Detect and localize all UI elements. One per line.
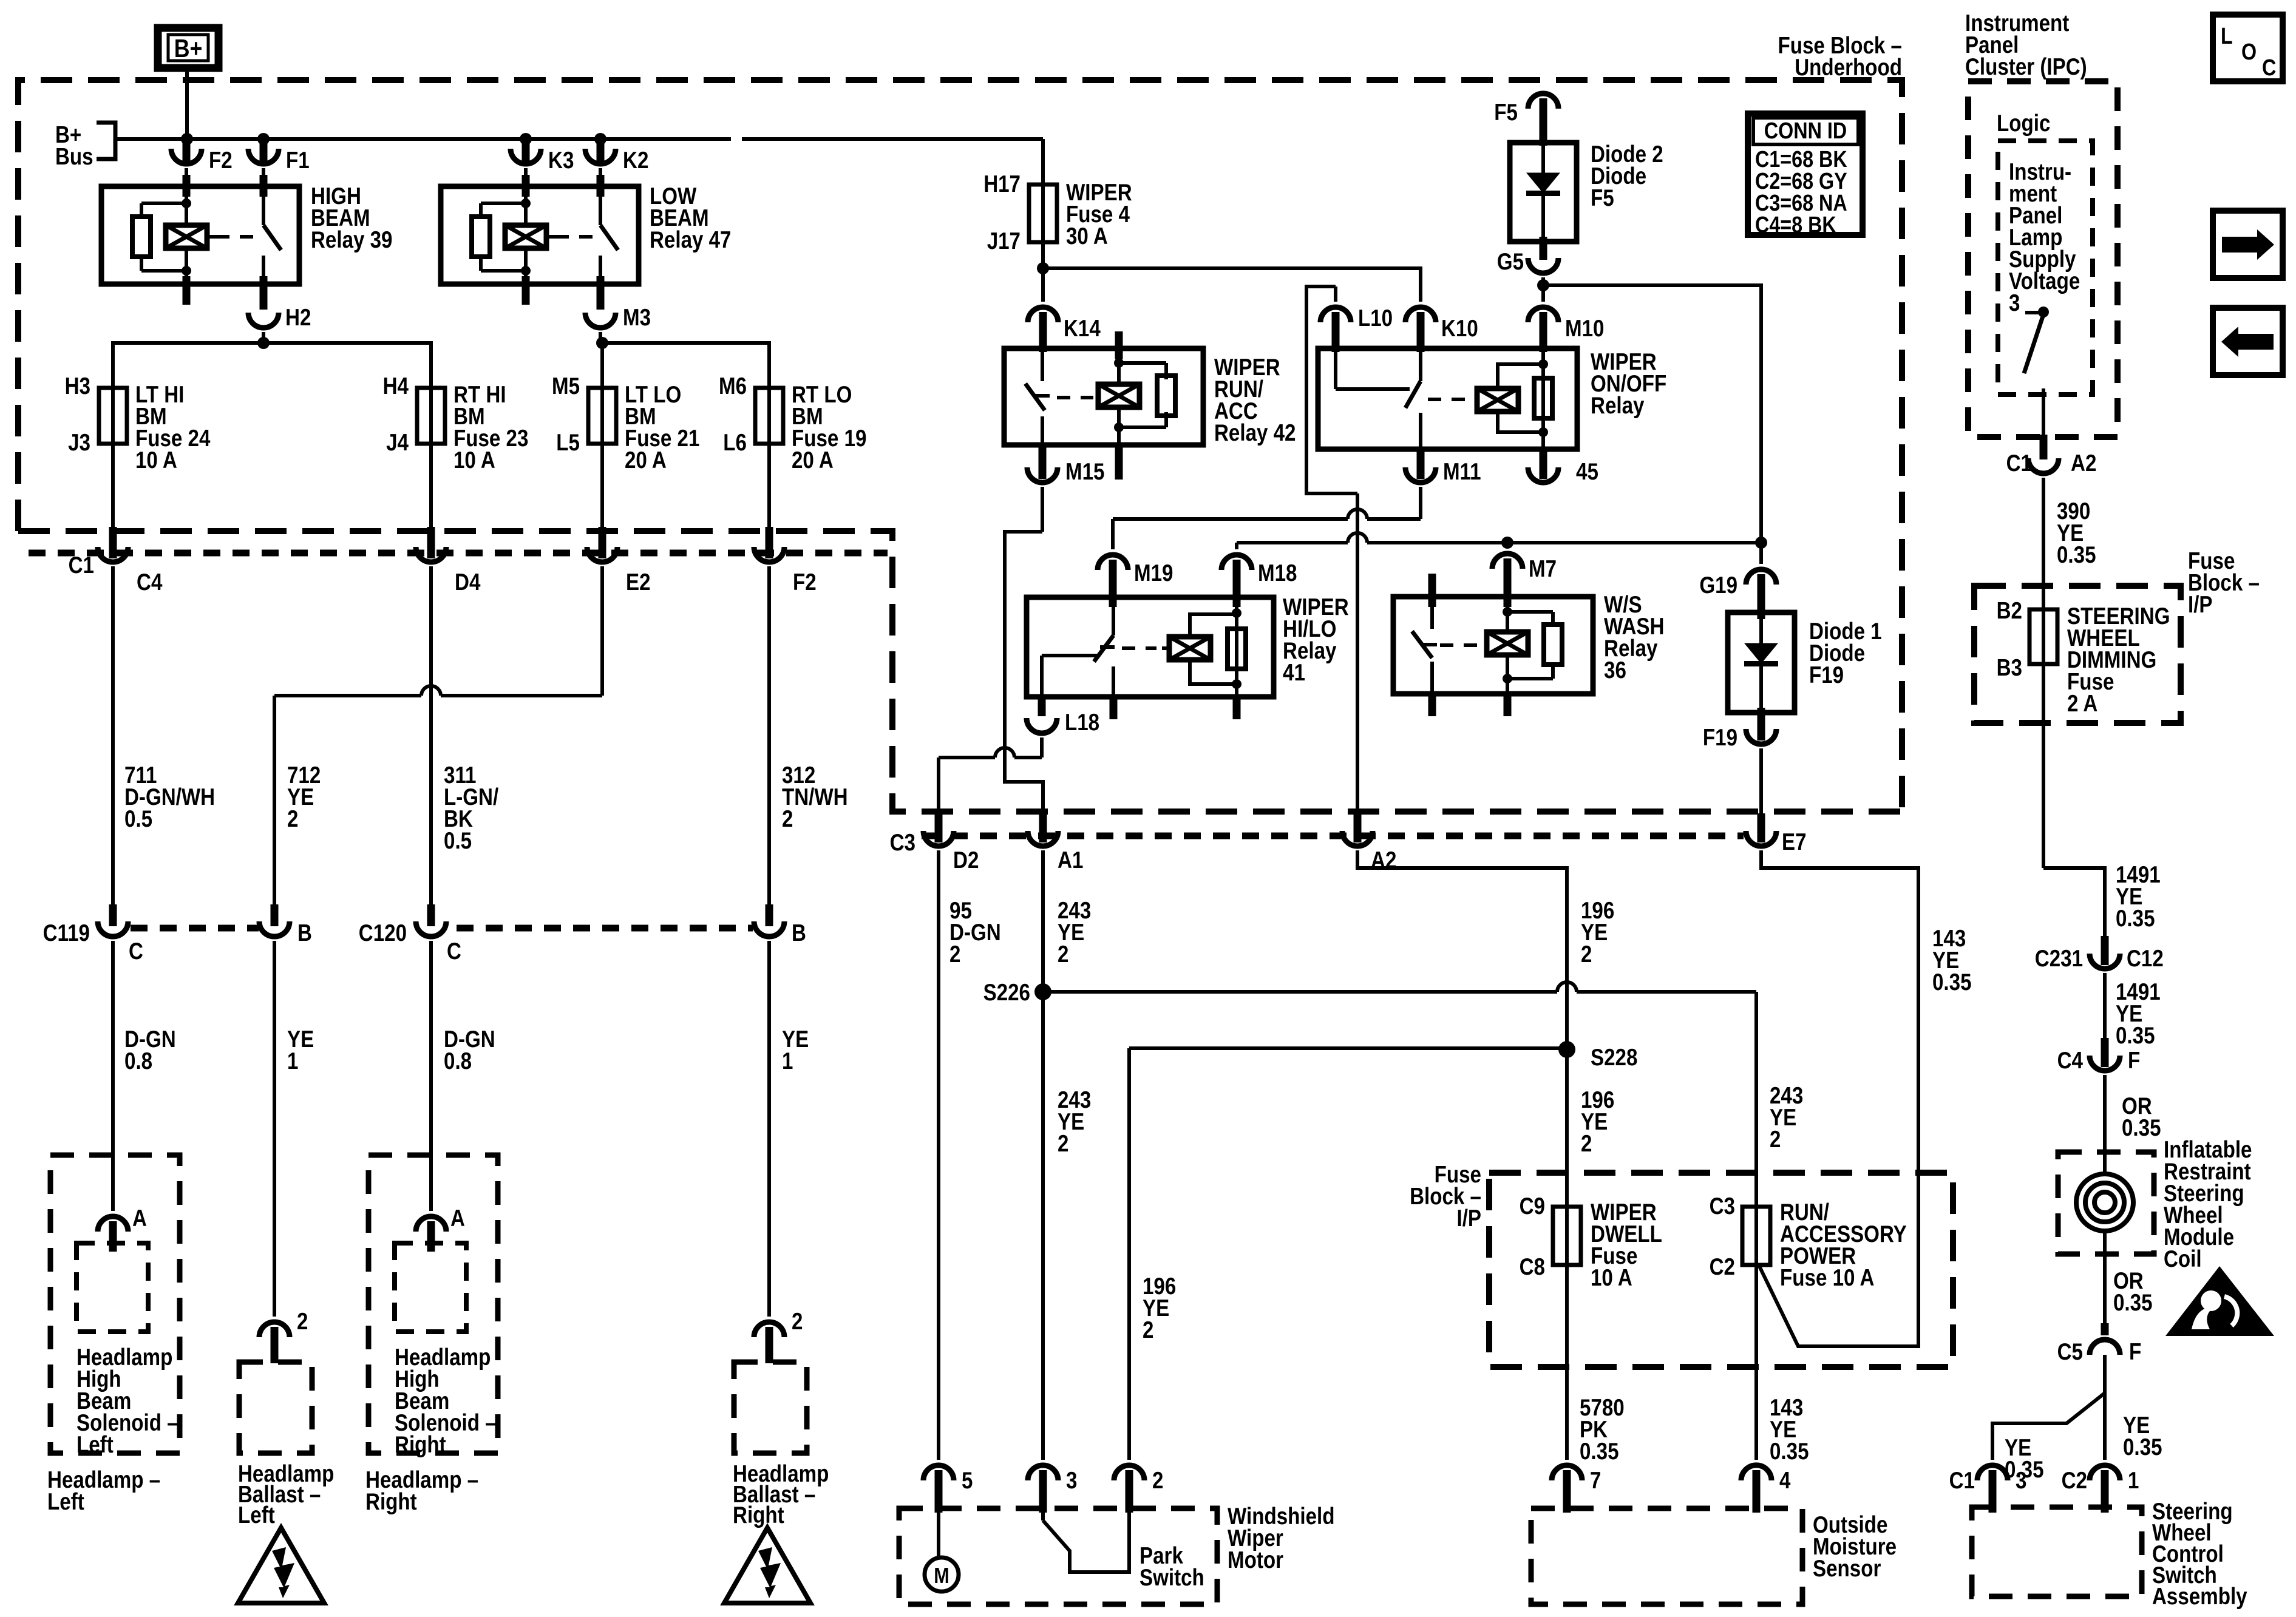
label 311 L-GN/BK 0.5 [444,762,498,854]
svg-text:2: 2 [949,941,960,968]
connector E2 [587,547,651,595]
headlamp right outer box [369,1155,498,1453]
svg-text:2 A: 2 A [2067,691,2097,717]
fuse Fuse 24 LT HI BM [65,373,211,534]
relay 36 dashed link [1440,643,1479,647]
fuse Fuse 21 LT LO BM [552,373,699,534]
connector B right ballast [754,920,806,946]
wire A2 to S228 [1357,850,1567,1265]
label D-GN 0.8 right [444,1026,495,1074]
fuse RUN/ACCESSORY POWER 10A [1710,1193,1907,1291]
connector F2 [171,139,233,174]
wire F19 to E7 [1758,748,1765,842]
svg-text:1: 1 [2128,1468,2139,1494]
svg-text:Relay 39: Relay 39 [311,227,393,253]
outside moisture sensor box [1531,1508,1802,1604]
svg-text:3: 3 [2009,290,2020,316]
connector 5 [923,1465,973,1513]
svg-text:F5: F5 [1494,100,1518,126]
junction bus-F2 [181,133,193,145]
label inflatable restraint coil [2164,1137,2252,1272]
wire E7 to fuse block IP [1759,850,1918,1346]
connector L18 [1027,710,1099,736]
svg-text:H17: H17 [983,171,1021,197]
label headlamp high beam solenoid left [76,1344,178,1458]
label windshield wiper motor [1228,1503,1335,1573]
svg-text:0.35: 0.35 [1770,1439,1809,1465]
wire J17 down [1041,268,1045,302]
connector B left ballast [259,920,312,946]
svg-text:D4: D4 [455,569,481,595]
svg-text:Left: Left [47,1489,84,1515]
svg-text:10 A: 10 A [135,447,177,473]
label 1491 YE 0.35 upper [2116,862,2161,932]
wire F1 to relay [262,168,265,186]
svg-text:C3: C3 [890,830,915,856]
svg-text:4: 4 [1779,1468,1791,1494]
junction G19 tap [1755,537,1767,549]
svg-text:S228: S228 [1591,1045,1637,1071]
svg-text:L10: L10 [1358,305,1393,331]
svg-text:M: M [934,1563,949,1588]
relay on/off dashed link [1428,398,1469,401]
IPC switch [2024,307,2049,459]
svg-text:C8: C8 [1520,1254,1545,1280]
connector C120 [359,920,461,964]
label headlamp high beam solenoid right [395,1344,497,1458]
wire 712 E2 to B [271,566,603,926]
wire 311 D4 to C120 [427,566,435,926]
fuse block underhood dashed border [18,80,1902,812]
wire YE to ballast right [767,941,771,1317]
connector F2 [754,547,817,595]
relay on/off coil [1477,364,1543,432]
label headlamp ballast right [733,1461,829,1528]
connector C4 [98,547,163,595]
svg-text:L5: L5 [556,430,580,456]
svg-text:C4: C4 [2057,1048,2084,1074]
svg-text:F2: F2 [209,147,233,174]
svg-text:O: O [2241,39,2257,65]
label Logic [1997,110,2050,137]
label headlamp ballast left [238,1461,334,1528]
label OR 0.35 lower [2113,1268,2153,1316]
relay 39 HIGH BEAM box and internals [101,175,299,310]
svg-text:0.8: 0.8 [444,1048,472,1074]
svg-text:20 A: 20 A [625,447,667,473]
connector M18 [1221,555,1297,607]
label instrument panel cluster [1965,10,2087,80]
wire M15 to A1 [1005,487,1047,842]
svg-text:C12: C12 [2127,946,2164,972]
connector M3 [585,305,651,331]
label 243 YE 2 lower [1058,1087,1091,1157]
svg-text:C1: C1 [1949,1468,1975,1494]
svg-text:Right: Right [395,1432,446,1458]
svg-text:E2: E2 [626,569,651,595]
label 1491 YE 0.35 lower [2116,979,2161,1049]
svg-text:A: A [132,1205,147,1232]
svg-text:L: L [2221,24,2233,49]
logic dashed box [1998,141,2093,395]
svg-text:2: 2 [1058,941,1068,968]
wire coil to C5 [2101,1254,2109,1335]
connector 2 ballast left [259,1309,308,1363]
svg-text:7: 7 [1590,1468,1601,1494]
svg-text:C4=8 BK: C4=8 BK [1755,212,1836,238]
connector F1 [248,139,310,174]
svg-text:B+: B+ [174,34,203,63]
wire M11 to M19 [1113,487,1421,549]
relay 41 WIPER HI/LO box [1027,597,1274,697]
label D-GN 0.8 left [124,1026,176,1074]
fuse 4 WIPER 30A [983,171,1132,254]
svg-text:A1: A1 [1058,847,1083,873]
svg-text:Bus: Bus [55,144,93,170]
svg-text:0.35: 0.35 [1932,969,1972,995]
fuse Fuse 19 RT LO BM [719,373,866,534]
wire H2 split [113,332,431,389]
connector K10 [1405,307,1478,352]
svg-text:D2: D2 [953,847,979,873]
svg-text:C1: C1 [2006,450,2032,476]
svg-text:C120: C120 [359,920,407,946]
relay on/off resistor [1534,348,1552,479]
relay 47 LOW BEAM box and internals [441,175,639,310]
relay 36 coil [1487,597,1528,716]
label 196 YE 2 motor [1143,1273,1176,1343]
svg-text:Relay 47: Relay 47 [650,227,732,253]
svg-text:Sensor: Sensor [1813,1556,1881,1582]
park switch [1043,1513,1204,1591]
conn id table [1748,114,1863,238]
IPC dashed box [1968,81,2118,437]
connector G19 [1699,543,1776,619]
connector H2 [248,305,311,331]
fuse WIPER DWELL 10A [1520,1193,1662,1291]
diode D1 symbol [1744,612,1778,713]
B+ Bus label and bracket [55,122,115,170]
svg-text:M11: M11 [1443,459,1481,485]
junction M7 tap [1501,537,1513,549]
svg-text:Assembly: Assembly [2152,1584,2247,1610]
svg-text:2: 2 [1143,1317,1153,1343]
relay 41 switch arm [1038,656,1098,716]
svg-text:0.35: 0.35 [2116,906,2155,932]
label WIPER ON/OFF Relay [1591,349,1666,419]
connector M11 [1405,459,1481,485]
connector 3 [1028,1465,1077,1513]
wire OR to coil [2103,1075,2107,1171]
svg-text:J17: J17 [987,228,1021,254]
motor M symbol [925,1513,959,1592]
svg-text:Left: Left [238,1502,275,1528]
svg-text:K2: K2 [623,147,648,174]
svg-text:2: 2 [1058,1131,1068,1157]
junction bus-K2 [594,133,606,145]
svg-text:I/P: I/P [2188,592,2213,618]
svg-text:C119: C119 [43,920,90,946]
label fuse block IP right [2188,548,2260,618]
diode D2 box [1510,143,1577,242]
relay on/off L10 arm [1336,348,1410,389]
wire YE to ballast left [273,941,276,1317]
fuse STEERING WHEEL DIMMING 2A [1997,598,2170,717]
svg-text:C: C [2262,55,2276,81]
svg-text:A: A [450,1205,465,1232]
headlamp ballast right box [734,1362,807,1453]
svg-text:A2: A2 [2071,450,2096,476]
wire 312 F2 to B [766,566,773,926]
svg-text:H3: H3 [65,373,90,399]
svg-text:Underhood: Underhood [1795,55,1902,81]
connector L10 [1320,305,1393,352]
wire M3 split [600,332,769,389]
label 196 YE 2 A2 [1581,898,1614,968]
connector A headlamp left [98,1205,147,1252]
svg-text:0.5: 0.5 [444,828,472,854]
svg-text:C: C [129,938,143,964]
svg-text:0.35: 0.35 [2113,1290,2153,1316]
svg-text:Right: Right [733,1502,784,1528]
wire S228 to motor2 [1129,1048,1567,1460]
svg-text:F1: F1 [286,147,310,174]
svg-text:Right: Right [365,1489,417,1515]
svg-text:1: 1 [782,1048,793,1074]
svg-text:J3: J3 [68,430,90,456]
svg-text:0.35: 0.35 [1580,1439,1619,1465]
wire K2 to relay [599,168,602,186]
connector row C3-E7 dotted line [922,833,1744,839]
headlamp left outer box [50,1155,180,1453]
svg-text:Cluster (IPC): Cluster (IPC) [1965,54,2087,80]
svg-text:2: 2 [782,806,793,832]
svg-text:B3: B3 [1997,655,2022,681]
label 5780 PK 0.35 [1580,1395,1625,1465]
connector M7 [1492,543,1557,607]
svg-text:C9: C9 [1520,1193,1545,1219]
svg-text:K3: K3 [548,147,574,174]
wire M5 fuse to connector row [599,444,606,558]
svg-text:2: 2 [1581,941,1592,968]
warning triangle left [238,1528,324,1603]
connector 2 ballast right [754,1309,803,1363]
label 243 YE 2 right [1770,1083,1803,1153]
svg-text:1: 1 [287,1048,298,1074]
svg-text:S226: S226 [983,980,1030,1006]
svg-text:J4: J4 [386,430,409,456]
wire C8 to sensor7 [1565,1265,1569,1460]
svg-text:C3: C3 [1710,1193,1735,1219]
arrow prev box [2213,308,2283,375]
svg-text:M15: M15 [1065,459,1105,485]
svg-text:Coil: Coil [2164,1246,2202,1272]
wire D-GN to headlamp left [111,941,115,1211]
svg-text:L18: L18 [1065,710,1099,736]
svg-text:I/P: I/P [1457,1205,1482,1232]
connector C1 A2 IPC [2006,450,2097,476]
svg-text:2: 2 [1770,1127,1781,1153]
label 390 YE 0.35 [2057,498,2096,568]
svg-text:M18: M18 [1258,560,1297,586]
svg-text:20 A: 20 A [792,447,834,473]
label YE 1 right [782,1026,809,1074]
wire J17 to K10 [1043,268,1421,302]
wire H3 fuse to connector row [109,444,117,558]
connector C3 D2 [890,830,979,873]
relay 36 switch [1412,574,1437,716]
svg-text:F: F [2128,1048,2140,1074]
svg-text:0.5: 0.5 [124,806,152,832]
svg-text:F2: F2 [793,569,817,595]
svg-text:3: 3 [2016,1468,2026,1494]
connector 7 [1552,1465,1601,1513]
svg-text:5: 5 [962,1468,973,1494]
connector M19 [1098,555,1173,607]
svg-text:0.35: 0.35 [2122,1115,2161,1141]
label WIPER RUN/ACC Relay 42 [1214,354,1296,446]
svg-text:2: 2 [297,1309,308,1335]
svg-text:K10: K10 [1441,316,1478,342]
relay 36 resistor [1507,612,1562,679]
label YE 0.35 right branch [2123,1412,2162,1460]
svg-text:C231: C231 [2035,946,2083,972]
svg-text:C1: C1 [69,552,94,578]
relay 42 coil [1098,331,1140,480]
wire K3 to relay [524,168,528,186]
svg-text:10 A: 10 A [453,447,495,473]
label 196 YE 2 below S228 [1581,1087,1614,1157]
relay 36 W/S WASH box [1393,597,1593,694]
svg-text:Switch: Switch [1140,1565,1204,1591]
svg-text:3: 3 [1066,1468,1077,1494]
svg-text:F5: F5 [1591,185,1614,211]
svg-text:C5: C5 [2057,1339,2083,1365]
connector M10 [1528,307,1605,352]
connector row C119-C120 dotted line [131,925,753,932]
svg-text:B: B [297,920,312,946]
svg-text:2: 2 [1581,1131,1592,1157]
connector 45 [1528,459,1598,485]
junction bus-F1 [257,133,270,145]
headlamp high beam solenoid right inner box [395,1243,466,1332]
relay 42 dashed link [1057,396,1093,399]
connector 2 [1114,1465,1163,1513]
diode D2 symbol [1526,143,1560,242]
connector A1 [1028,831,1083,873]
wire S226 to run fuse [1043,982,1756,1265]
svg-text:0.35: 0.35 [2123,1434,2162,1460]
fuse block IP dimming dashed box [1974,586,2181,723]
wire F2 to relay [185,168,188,186]
connector F5 [1494,93,1558,146]
svg-text:C2: C2 [1710,1254,1735,1280]
svg-text:E7: E7 [1782,829,1807,855]
wire 390 to C231 [2043,478,2109,965]
connector A headlamp right [416,1205,465,1252]
B+ bus wire [115,137,1043,141]
coil spiral [2076,1152,2133,1254]
label fuse block underhood [1778,33,1903,81]
junction M3 split [596,337,608,349]
svg-text:30 A: 30 A [1066,223,1108,249]
svg-text:36: 36 [1604,657,1626,683]
svg-text:10 A: 10 A [1591,1265,1632,1291]
svg-text:M10: M10 [1565,316,1605,342]
label fuse block IP [1410,1162,1481,1232]
wire M6 fuse to connector row [766,444,773,558]
wire H4 fuse to connector row [427,444,435,558]
svg-text:2: 2 [287,806,298,832]
svg-text:G5: G5 [1497,249,1524,275]
svg-text:M6: M6 [719,373,747,399]
label 711 D-GN/WH 0.5 [124,762,215,832]
wire 1491 to C4 [2101,973,2109,1067]
svg-text:H4: H4 [383,373,409,399]
label instrument panel lamp supply voltage 3 [2009,159,2080,316]
relay 41 coil [1162,614,1237,684]
relay 41 dashed link [1122,646,1156,650]
wire L10 to A2 node [1306,286,1362,842]
svg-text:G19: G19 [1699,572,1737,598]
wire B+ to bus [185,72,189,139]
label 243 YE 2 upper [1058,898,1091,968]
connector C1 3 [1949,1465,2027,1513]
svg-text:C: C [447,938,461,964]
svg-text:M7: M7 [1529,556,1557,582]
label 712 YE 2 [287,762,321,832]
svg-text:C4: C4 [137,569,163,595]
relay on/off box [1318,348,1577,449]
svg-text:F19: F19 [1809,662,1844,688]
svg-text:0.35: 0.35 [2057,542,2096,568]
label steering wheel control switch assembly [2152,1499,2247,1610]
relay 42 WIPER RUN/ACC box [1004,348,1203,445]
wire bus to fuse4 [1041,139,1045,268]
connector C4 F [2057,1048,2141,1074]
svg-text:L6: L6 [723,430,747,456]
connector 4 [1741,1465,1791,1513]
headlamp ballast left box [239,1362,312,1453]
connector C5 F [2057,1339,2142,1365]
svg-text:M3: M3 [623,305,651,331]
relay 41 switch [1094,597,1118,719]
label C1 [69,552,94,578]
svg-text:M5: M5 [552,373,580,399]
wire L18 to D2 [935,737,1042,842]
label YE 1 left [287,1026,314,1074]
svg-text:Relay: Relay [1591,393,1645,419]
label WIPER HI/LO Relay 41 [1283,594,1349,686]
fuse block IP dashed box [1489,1173,1953,1367]
svg-text:Logic: Logic [1997,110,2050,137]
relay on/off switch [1405,348,1425,479]
svg-text:K14: K14 [1064,316,1101,342]
svg-text:C2: C2 [2062,1468,2087,1494]
label 143 YE 0.35 bottom [1770,1395,1809,1465]
connector C231 C12 [2035,946,2164,972]
junction S226 [983,980,1051,1006]
svg-text:Fuse 10 A: Fuse 10 A [1780,1265,1874,1291]
svg-text:M19: M19 [1134,560,1173,586]
label outside moisture sensor [1813,1512,1897,1582]
svg-text:0.35: 0.35 [2116,1023,2155,1049]
wire D-GN to headlamp right [429,941,433,1211]
label headlamp right [365,1467,478,1515]
svg-text:F19: F19 [1703,725,1737,751]
steering wheel control switch assembly box [1972,1507,2142,1596]
svg-text:0.8: 0.8 [124,1048,152,1074]
